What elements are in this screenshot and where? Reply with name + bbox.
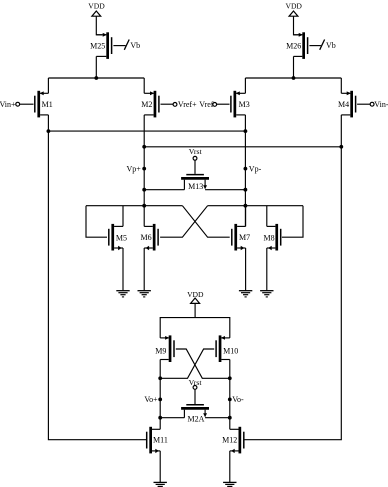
transistor M5 (diode load): [109, 224, 127, 251]
svg-text:M25: M25: [90, 42, 105, 51]
slash on Vb line (right): [320, 40, 325, 50]
transistor M25 (PMOS, gate Vb): [90, 32, 111, 59]
svg-text:Vrst: Vrst: [189, 147, 203, 156]
wire VDD to M26 source: [294, 16, 300, 35]
svg-text:M3: M3: [239, 100, 250, 109]
node Vp-: [244, 164, 262, 173]
transistor M8 (diode load): [263, 224, 280, 251]
junction M26 drain / M3-M4 sources: [292, 76, 296, 80]
svg-text:M11: M11: [153, 435, 168, 444]
wire load top-right (M7/M8 drains): [208, 205, 303, 207]
transistor M7 (cross-coupled load): [232, 224, 250, 251]
power symbol VDD (left): [88, 1, 105, 16]
svg-text:M7: M7: [239, 233, 250, 242]
wire M2 source up: [143, 78, 145, 93]
ground at M11 source: [154, 482, 167, 487]
ground at M7 source: [239, 291, 252, 297]
wire M25 gate to Vb: [113, 45, 125, 47]
input terminal Vref+: [173, 100, 197, 109]
transistor M6 (cross-coupled load): [140, 224, 158, 251]
input terminal Vin+: [0, 100, 20, 109]
junction M25 drain / M1-M2 sources: [94, 76, 98, 80]
node Vo+: [144, 395, 162, 404]
wire M6 source to ground: [143, 248, 145, 291]
svg-text:Vin+: Vin+: [0, 100, 16, 109]
wire Vin- to M4 gate: [357, 103, 370, 105]
wire VDD to latch sources: [194, 303, 196, 317]
wire load top-left (M5/M6 drains): [86, 205, 182, 207]
wire M5 source to ground: [122, 248, 124, 291]
ground at M12 source: [223, 482, 236, 487]
wire M8 diode connection loop: [282, 206, 303, 238]
power symbol VDD (latch): [187, 290, 204, 304]
wire M3 drain rail down (Vp- rail): [244, 115, 246, 226]
wire M12 source to ground: [229, 451, 231, 483]
svg-text:M13: M13: [188, 182, 203, 191]
transistor M26 (PMOS, gate Vb): [286, 32, 307, 59]
svg-text:Vb: Vb: [130, 41, 140, 50]
wire M25 drain down to node: [95, 56, 97, 78]
node Vo-: [228, 395, 244, 404]
wire M9 drain rail down to M11: [159, 360, 161, 430]
wire Vin+ to M1 gate: [20, 103, 34, 105]
svg-text:M10: M10: [223, 346, 238, 355]
svg-text:Vp+: Vp+: [127, 164, 142, 173]
wire M8 source to ground: [266, 248, 268, 291]
svg-text:M12: M12: [222, 435, 237, 444]
wire M10 gate cross-couple to left rail: [160, 349, 214, 378]
wire M1 drain down left rail to M11 gate: [48, 115, 146, 440]
wire M2A right terminal to right rail: [205, 417, 230, 419]
slash on Vb line (left): [124, 40, 129, 50]
junction M2A wire at right rail: [228, 416, 232, 420]
input terminal Vref-: [199, 100, 216, 109]
junction cross-couple at right rail: [228, 376, 232, 380]
svg-text:Vo-: Vo-: [232, 395, 244, 404]
wire M3 source up: [244, 78, 246, 93]
wire VDD to M25 source: [96, 16, 102, 35]
wire M5 drain up: [122, 206, 124, 227]
terminal Vrst (upper): [189, 147, 203, 160]
wire node B: M2 drain to M4 drain (horizontal): [144, 146, 341, 148]
node Vp+: [127, 164, 147, 173]
svg-text:M4: M4: [338, 100, 349, 109]
power symbol VDD (right): [285, 1, 302, 16]
junction node B at M4 drain rail: [339, 145, 343, 149]
transistor M3 (input pair): [231, 91, 250, 118]
wire M26 drain down to node: [293, 56, 295, 78]
svg-text:Vb: Vb: [326, 41, 336, 50]
transistor M11 (output NMOS): [147, 427, 168, 454]
label Vb (left): [130, 41, 140, 50]
terminal Vrst (lower): [189, 378, 203, 389]
wire M4 drain down right rail to M12 gate: [245, 115, 342, 440]
wire node A: M1 drain to M3 drain (horizontal): [48, 130, 245, 132]
svg-text:M1: M1: [42, 100, 53, 109]
wire M9 gate cross-couple to right rail: [176, 349, 230, 378]
svg-text:M8: M8: [263, 233, 274, 242]
wire M4 source up: [340, 78, 342, 93]
junction load top-right at Vp- rail: [244, 204, 248, 208]
svg-text:VDD: VDD: [88, 1, 105, 10]
svg-text:M2A: M2A: [188, 414, 205, 423]
junction load top-left at Vp+ rail: [142, 204, 146, 208]
transistor M1 (input pair): [35, 91, 53, 118]
ground at M8 source: [260, 291, 273, 297]
svg-text:VDD: VDD: [187, 290, 204, 299]
wire M1 source up: [47, 78, 49, 93]
svg-text:M26: M26: [286, 42, 301, 51]
wire M5 diode connection loop: [86, 206, 107, 238]
svg-text:Vin-: Vin-: [374, 100, 388, 109]
wire M26 gate to Vb: [309, 45, 321, 47]
wire M10 drain rail down to M12: [229, 360, 231, 430]
transistor M9 (latch PMOS): [155, 335, 174, 362]
svg-text:Vp-: Vp-: [249, 164, 262, 173]
junction M1 drain on node A: [47, 129, 51, 133]
svg-text:M5: M5: [116, 233, 127, 242]
wire M2 drain rail down (Vp+ rail): [143, 115, 145, 226]
transistor M12 (output NMOS): [222, 427, 244, 454]
junction cross-couple at left rail: [158, 376, 162, 380]
label Vb (right): [326, 41, 336, 50]
svg-text:M6: M6: [140, 233, 151, 242]
junction M13 wire at Vp- rail: [244, 188, 248, 192]
transistor M2 (input pair): [141, 91, 159, 118]
ground at M6 source: [138, 291, 151, 297]
transistor M2A (reset switch, horizontal): [181, 405, 209, 424]
wire Vrst to M2A gate: [194, 389, 196, 404]
junction M2A wire at left rail: [158, 416, 162, 420]
svg-text:M9: M9: [155, 346, 166, 355]
wire M8 drain up: [266, 206, 268, 227]
wire left rail to M2A left terminal: [160, 417, 184, 419]
wire M13 right terminal to Vp- rail: [205, 189, 245, 191]
transistor M13 (reset switch, horizontal): [181, 175, 209, 191]
wire cross-couple diagonal (Vp+ to M7 gate): [182, 206, 229, 238]
wire M3/M4 source rail (top right): [245, 77, 341, 79]
transistor M10 (latch PMOS): [216, 335, 238, 362]
wire M1/M2 source rail (top left): [48, 77, 144, 79]
svg-text:VDD: VDD: [285, 1, 302, 10]
junction node A at M3 drain rail: [244, 129, 248, 133]
svg-text:Vref+: Vref+: [178, 100, 197, 109]
wire M7 source to ground: [245, 248, 247, 291]
wire Vref- to M3 gate: [217, 103, 230, 105]
junction M13 wire at Vp+ rail: [142, 188, 146, 192]
wire M7 drain up: [245, 206, 247, 227]
wire Vref+ to M2 gate: [161, 103, 174, 105]
wire latch source rail: [160, 318, 230, 338]
wire Vrst to M13 gate: [194, 160, 196, 174]
transistor M4 (input pair): [338, 91, 356, 118]
input terminal Vin-: [370, 100, 388, 109]
wire Vp+ rail to M13 left terminal: [144, 189, 184, 191]
ground at M5 source: [116, 291, 129, 297]
junction node B at M2 drain rail: [142, 145, 146, 149]
svg-text:M2: M2: [141, 100, 152, 109]
wire M11 source to ground: [159, 451, 161, 483]
wire M6 gate to cross-couple diagonal (to Vp-): [160, 206, 208, 238]
svg-text:Vo+: Vo+: [144, 395, 158, 404]
